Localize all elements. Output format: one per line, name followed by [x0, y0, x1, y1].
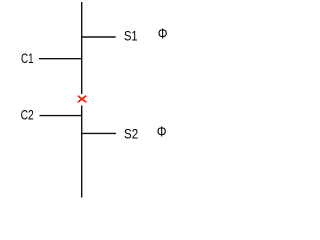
svg-text:S2: S2 — [124, 126, 138, 142]
svg-text:C2: C2 — [21, 107, 34, 123]
wire: C1 branch stub — [39, 58, 82, 60]
svg-text:S1: S1 — [124, 28, 138, 44]
wire: C2 branch stub — [40, 115, 83, 117]
switch X (red open-contact mark) on vertical bus — [78, 96, 85, 102]
wire: main vertical bus, upper segment — [81, 2, 83, 94]
wire: S2 branch stub — [81, 132, 116, 134]
wire: S1 branch stub — [81, 36, 116, 38]
svg-text:C1: C1 — [21, 50, 34, 66]
svg-text:Φ: Φ — [157, 125, 167, 141]
wire: main vertical bus, lower segment — [81, 106, 83, 198]
svg-text:Φ: Φ — [158, 27, 168, 43]
